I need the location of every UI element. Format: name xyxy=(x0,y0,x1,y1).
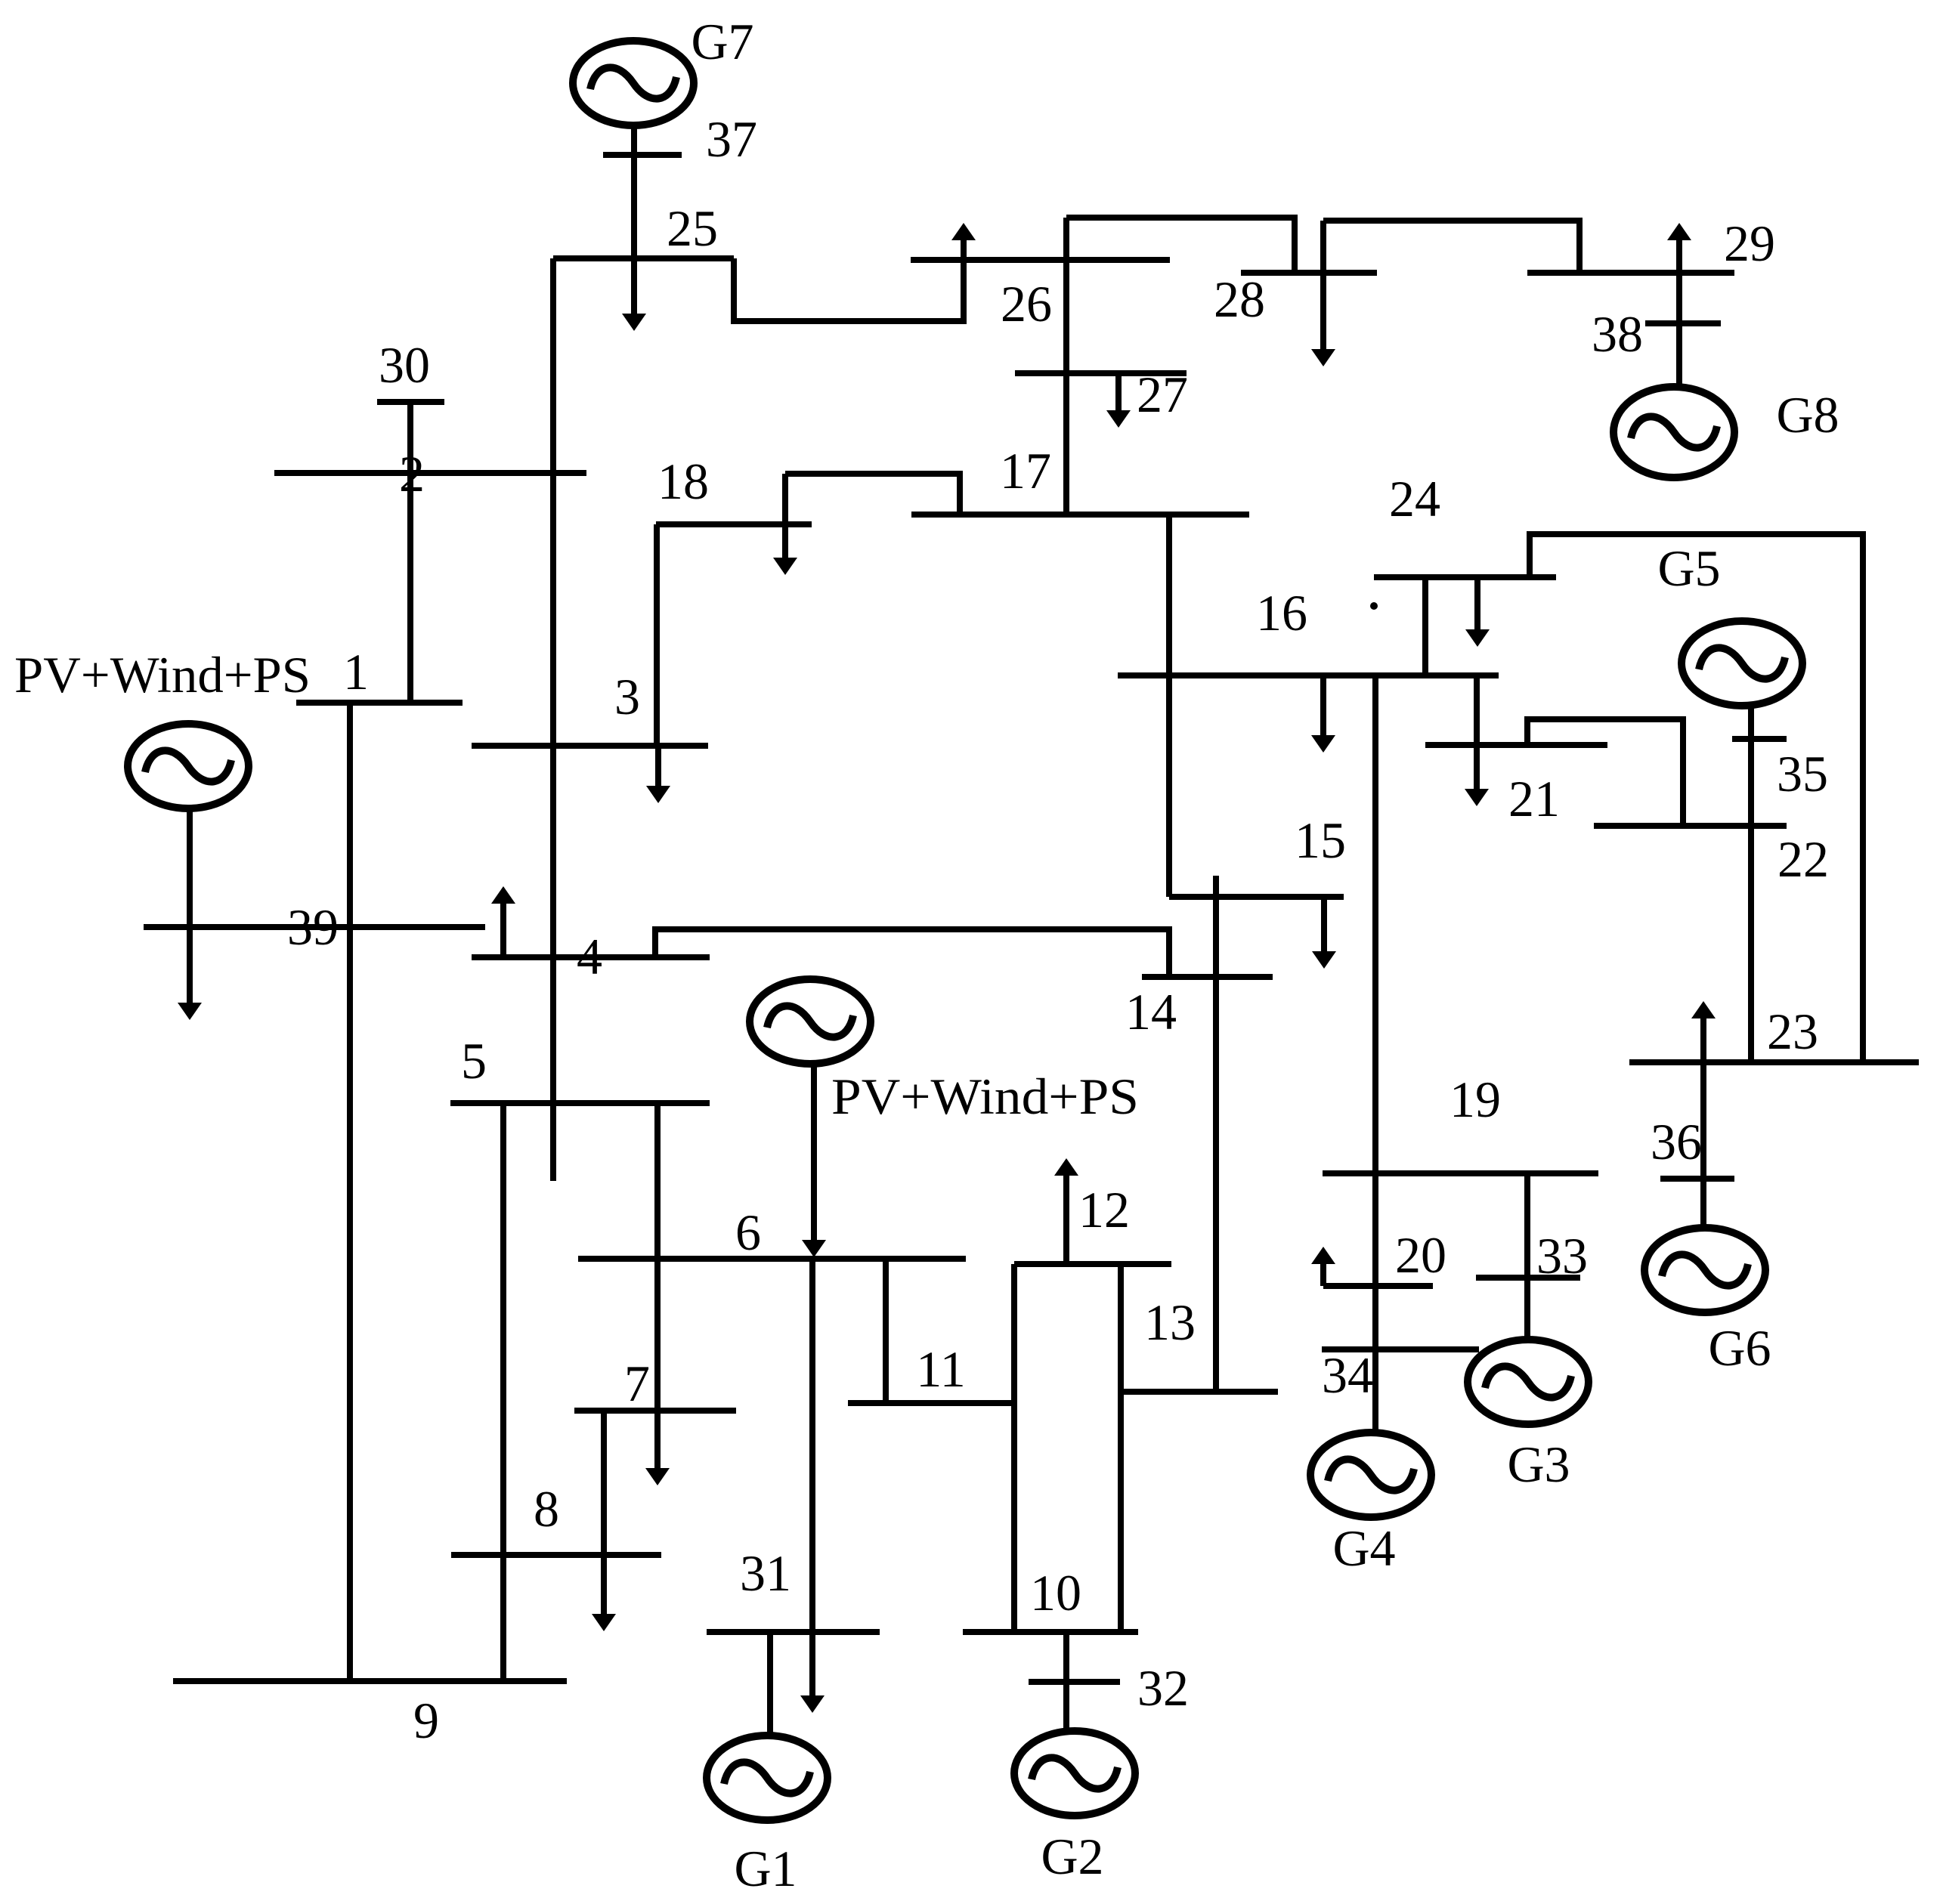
bus 29 bar xyxy=(1527,270,1734,276)
load arrow at bus 27 xyxy=(1115,373,1122,414)
bus 17 bar xyxy=(911,512,1249,518)
load arrow at bus 16 xyxy=(1320,675,1326,739)
generator G1 xyxy=(707,1736,828,1820)
wire bus 10 to bus 32 to G2 xyxy=(1063,1632,1069,1731)
svg-text:27: 27 xyxy=(1137,366,1188,423)
svg-text:16: 16 xyxy=(1256,584,1307,641)
bus 20 bar xyxy=(1323,1283,1433,1289)
load arrow at bus 12 (pointing up) xyxy=(1063,1172,1069,1264)
svg-text:G3: G3 xyxy=(1507,1436,1570,1493)
load arrow at bus 24 xyxy=(1474,577,1480,633)
svg-text:25: 25 xyxy=(667,199,718,257)
wire bus 19 to bus 33 to G3 xyxy=(1524,1173,1530,1340)
bus 19 bar xyxy=(1323,1170,1598,1176)
load arrow at bus 31 xyxy=(809,1632,815,1699)
wire bus 17 to bus 18 (step) xyxy=(785,474,960,515)
svg-text:26: 26 xyxy=(1001,275,1052,332)
wire bus 26 to bus 28 xyxy=(1066,218,1295,273)
generator G6 xyxy=(1644,1228,1765,1312)
bus 18 bar xyxy=(656,521,812,527)
bus 38 bar xyxy=(1645,320,1721,326)
bus 27 bar xyxy=(1015,370,1187,376)
wire bus 16 to bus 15 xyxy=(1166,675,1172,897)
wire G7 to bus 37 to bus 25 xyxy=(631,125,637,258)
svg-text:2: 2 xyxy=(399,445,425,502)
bus 2 bar xyxy=(274,470,586,476)
svg-text:7: 7 xyxy=(624,1355,650,1412)
bus 34 bar xyxy=(1322,1346,1479,1352)
svg-text:30: 30 xyxy=(379,336,430,394)
svg-text:36: 36 xyxy=(1651,1113,1702,1170)
wire bus 25 to bus 2 to bus 3 to bus 4 to bus 5 xyxy=(550,258,556,1181)
svg-text:21: 21 xyxy=(1508,770,1560,827)
bus 7 bar xyxy=(574,1408,736,1414)
bus 31 bar xyxy=(707,1629,880,1635)
svg-text:4: 4 xyxy=(577,928,602,985)
bus 39 bar xyxy=(144,924,485,930)
svg-text:5: 5 xyxy=(461,1032,487,1090)
bus 14 bar xyxy=(1142,974,1273,980)
wire bus 18 to bus 3 xyxy=(654,524,660,746)
wire bus 24 to bus 16 xyxy=(1422,577,1428,675)
wire bus 23 to bus 36 to G6 xyxy=(1700,1062,1706,1229)
svg-text:34: 34 xyxy=(1322,1346,1373,1404)
svg-text:13: 13 xyxy=(1144,1294,1196,1351)
bus 6 bar xyxy=(578,1256,966,1262)
bus 4 bar xyxy=(472,954,710,960)
wire bus 28 to bus 29 xyxy=(1323,221,1579,273)
svg-text:11: 11 xyxy=(916,1340,965,1398)
svg-text:38: 38 xyxy=(1592,305,1643,363)
wire bus 5 to bus 6 to bus 7 xyxy=(654,1103,661,1411)
load arrow at bus 15 xyxy=(1321,897,1327,955)
svg-text:23: 23 xyxy=(1767,1003,1818,1060)
bus 30 bar xyxy=(377,399,444,405)
svg-text:17: 17 xyxy=(1000,442,1051,499)
load arrow at bus 8 xyxy=(601,1555,607,1618)
load arrow at bus 3 xyxy=(655,746,661,790)
wire G5 to bus 35 to bus 22 to bus 23 xyxy=(1748,703,1754,1062)
svg-text:G8: G8 xyxy=(1776,386,1839,444)
wire bus 12 to bus 11 to bus 10 (left side) xyxy=(1011,1264,1017,1632)
svg-text:3: 3 xyxy=(614,668,640,725)
load arrow at bus 39 xyxy=(187,927,193,1006)
bus 9 bar xyxy=(173,1678,567,1684)
bus 22 bar xyxy=(1594,823,1787,829)
bus 8 bar xyxy=(451,1552,661,1558)
wire bus 16 to bus 19 to bus 20 to bus 34 to G4 xyxy=(1372,675,1378,1434)
svg-text:35: 35 xyxy=(1777,745,1828,802)
svg-text:20: 20 xyxy=(1395,1226,1446,1284)
svg-text:8: 8 xyxy=(534,1480,559,1538)
bus 13 bar xyxy=(1118,1389,1278,1395)
wire bus 4 to bus 14 (step) xyxy=(655,929,1169,977)
load arrow at bus 20 xyxy=(1320,1260,1326,1286)
svg-text:G1: G1 xyxy=(734,1840,797,1897)
svg-text:G7: G7 xyxy=(691,13,753,70)
wire PV+Wind+PS source to bus 6 (feed arrow) xyxy=(811,1064,817,1244)
bus 36 bar xyxy=(1660,1176,1734,1182)
svg-text:31: 31 xyxy=(740,1544,791,1602)
svg-text:22: 22 xyxy=(1777,830,1829,888)
svg-text:33: 33 xyxy=(1536,1227,1588,1284)
bus 10 bar xyxy=(963,1629,1138,1635)
load arrow at bus 18 xyxy=(782,474,788,561)
wire bus 17 to bus 16 xyxy=(1166,515,1172,675)
bus 23 bar xyxy=(1629,1059,1919,1065)
svg-text:PV+Wind+PS: PV+Wind+PS xyxy=(14,646,311,703)
svg-text:9: 9 xyxy=(413,1692,439,1749)
svg-text:18: 18 xyxy=(657,453,709,510)
load arrow at bus 7 xyxy=(654,1411,661,1472)
load arrow at bus 25 xyxy=(631,258,637,317)
generator G3 xyxy=(1468,1340,1589,1424)
wire bus 25 to bus 26 (step) xyxy=(734,258,964,321)
svg-text:14: 14 xyxy=(1125,983,1177,1040)
bus 35 bar xyxy=(1732,736,1787,742)
wire bus 7 to bus 8 xyxy=(601,1411,607,1555)
wire bus 16 to bus 21 and load arrow at bus 21 xyxy=(1474,675,1480,793)
bus 16 bar xyxy=(1118,672,1499,678)
generator PV+Wind+PS at bus 6 xyxy=(750,979,871,1064)
wire bus 31 to G1 xyxy=(767,1632,773,1736)
bus 15 bar xyxy=(1169,894,1344,900)
wire bus 5 to bus 8 to bus 9 xyxy=(500,1103,506,1681)
svg-text:G6: G6 xyxy=(1708,1319,1771,1377)
svg-text:29: 29 xyxy=(1724,215,1775,272)
wire bus 12 to bus 13 to bus 10 (right side) xyxy=(1118,1264,1124,1632)
svg-text:PV+Wind+PS: PV+Wind+PS xyxy=(831,1068,1139,1125)
bus 33 bar xyxy=(1476,1275,1580,1281)
svg-text:24: 24 xyxy=(1389,470,1440,527)
generator G8 xyxy=(1613,387,1734,478)
wire bus 24 to bus 23 (top right step) xyxy=(1530,534,1863,1062)
bus 37 bar xyxy=(603,152,682,158)
wire bus 6 to bus 11 xyxy=(883,1259,889,1403)
generator G4 xyxy=(1310,1433,1431,1517)
svg-text:32: 32 xyxy=(1137,1659,1189,1717)
wire bus 29 to bus 38 to G8 xyxy=(1676,273,1682,388)
generator G5 xyxy=(1682,621,1802,706)
generator G7 xyxy=(573,41,694,125)
wire PV+Wind+PS source to bus 39 xyxy=(187,808,193,927)
svg-text:19: 19 xyxy=(1450,1071,1501,1128)
load arrow at bus 28 xyxy=(1320,221,1326,353)
generator G2 xyxy=(1014,1731,1135,1816)
svg-text:10: 10 xyxy=(1030,1564,1081,1621)
bus 28 bar xyxy=(1241,270,1377,276)
svg-text:6: 6 xyxy=(735,1204,761,1261)
svg-text:12: 12 xyxy=(1078,1181,1130,1238)
svg-text:15: 15 xyxy=(1295,811,1346,869)
wire bus 1 to bus 39 to bus 9 xyxy=(347,703,353,1681)
wire bus 26 to bus 17 xyxy=(1063,218,1069,515)
bus 25 bar xyxy=(553,255,734,261)
wire bus 15 to bus 14 to bus 13 xyxy=(1213,876,1219,1392)
stray dot artifact near bus 24 xyxy=(1370,602,1378,610)
svg-text:G4: G4 xyxy=(1332,1519,1395,1577)
bus 26 bar xyxy=(911,257,1170,263)
load arrow at bus 4 (pointing up) xyxy=(500,900,506,957)
svg-text:G2: G2 xyxy=(1041,1828,1103,1885)
bus 1 bar xyxy=(296,700,463,706)
wire bus 6 to bus 31 xyxy=(809,1259,815,1632)
bus 11 bar xyxy=(848,1400,1016,1406)
generator PV+Wind+PS at bus 39 xyxy=(128,724,249,808)
bus 12 bar xyxy=(1014,1261,1171,1267)
svg-text:1: 1 xyxy=(343,643,369,700)
load arrow at bus 23 xyxy=(1700,1015,1706,1062)
wire bus 30 to bus 2 to bus 1 xyxy=(407,402,413,703)
bus 5 bar xyxy=(450,1100,710,1106)
load arrow at bus 26 xyxy=(961,236,967,260)
svg-text:G5: G5 xyxy=(1657,539,1720,597)
wire bus 21 to bus 22 (step) xyxy=(1527,719,1683,826)
bus 3 bar xyxy=(472,743,708,749)
bus 32 bar xyxy=(1029,1679,1120,1685)
svg-text:37: 37 xyxy=(706,110,757,168)
load arrow at bus 29 xyxy=(1676,236,1682,273)
svg-text:28: 28 xyxy=(1214,270,1265,328)
svg-text:39: 39 xyxy=(287,898,339,956)
bus 24 bar xyxy=(1374,574,1556,580)
bus 21 bar xyxy=(1425,742,1607,748)
